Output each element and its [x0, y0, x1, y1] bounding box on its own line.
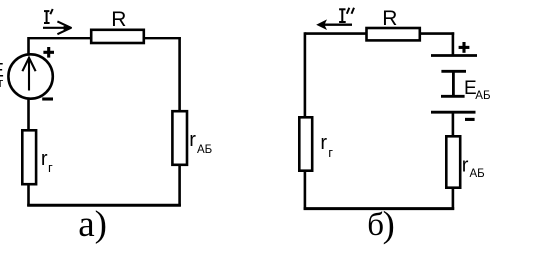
- voltage source circle E (a): [8, 54, 52, 98]
- label I'' (b): [339, 8, 354, 22]
- wire: bottom wire (b): [304, 207, 455, 210]
- svg-text:R: R: [382, 7, 397, 30]
- svg-text:r: r: [462, 154, 469, 176]
- svg-text:r: r: [41, 148, 48, 170]
- resistor r_g (a): [22, 130, 36, 184]
- wire: top wire right segment (a): [144, 37, 181, 39]
- svg-text:АБ: АБ: [197, 144, 212, 156]
- wire: right vertical from top wire to battery (b): [452, 32, 455, 55]
- wire: left vertical from top wire to source (a): [27, 37, 30, 55]
- svg-text:а): а): [78, 204, 107, 245]
- current arrow I' (a): [43, 21, 71, 34]
- svg-text:): ): [383, 204, 395, 245]
- current arrow I'' (b): [316, 19, 352, 30]
- resistor r_AB (b): [446, 136, 460, 187]
- battery top plate (b): [431, 54, 477, 57]
- wire: top wire left segment (a): [29, 37, 92, 39]
- svg-text:г: г: [0, 75, 4, 90]
- battery middle element bottom cap (b): [441, 95, 465, 98]
- minus sign of battery (b): [465, 118, 475, 121]
- resistor r_AB (a): [172, 111, 187, 165]
- wire: left vertical from top wire to r_g (b): [304, 32, 307, 117]
- wire: top wire left segment (b): [305, 32, 367, 35]
- svg-text:R: R: [111, 8, 126, 31]
- battery middle element stem (b): [452, 71, 455, 96]
- resistor R (a): [91, 30, 144, 43]
- svg-text:r: r: [320, 132, 327, 154]
- svg-text:б: б: [367, 207, 384, 243]
- wire: from source bottom to resistor r_g (a): [27, 98, 30, 130]
- svg-text:АБ: АБ: [470, 168, 485, 180]
- wire: battery to r_AB (b): [452, 112, 455, 136]
- wire: bottom wire (a): [27, 204, 181, 207]
- svg-text:г: г: [48, 160, 53, 175]
- resistor R (b): [367, 28, 420, 40]
- svg-text:АБ: АБ: [475, 90, 490, 102]
- battery bottom plate (b): [431, 111, 476, 114]
- label I' (a): [44, 9, 53, 23]
- battery middle element top cap (b): [441, 70, 466, 73]
- wire: top wire right segment (b): [420, 32, 454, 35]
- minus sign of source (a): [42, 97, 53, 100]
- wire: from r_g bottom to bottom wire (b): [304, 170, 307, 210]
- svg-text:r: r: [189, 129, 196, 151]
- wire: from r_g bottom to bottom wire (a): [27, 184, 30, 206]
- resistor r_g (b): [299, 117, 312, 170]
- wire: right vertical bottom (a): [178, 164, 181, 206]
- wire: r_AB bottom to bottom wire (b): [452, 187, 455, 210]
- plus sign of source (a): [43, 47, 54, 58]
- plus sign of battery (b): [459, 42, 470, 53]
- wire: right vertical top (a): [178, 37, 181, 112]
- arrow inside source (a): [22, 58, 35, 91]
- svg-text:г: г: [328, 145, 333, 160]
